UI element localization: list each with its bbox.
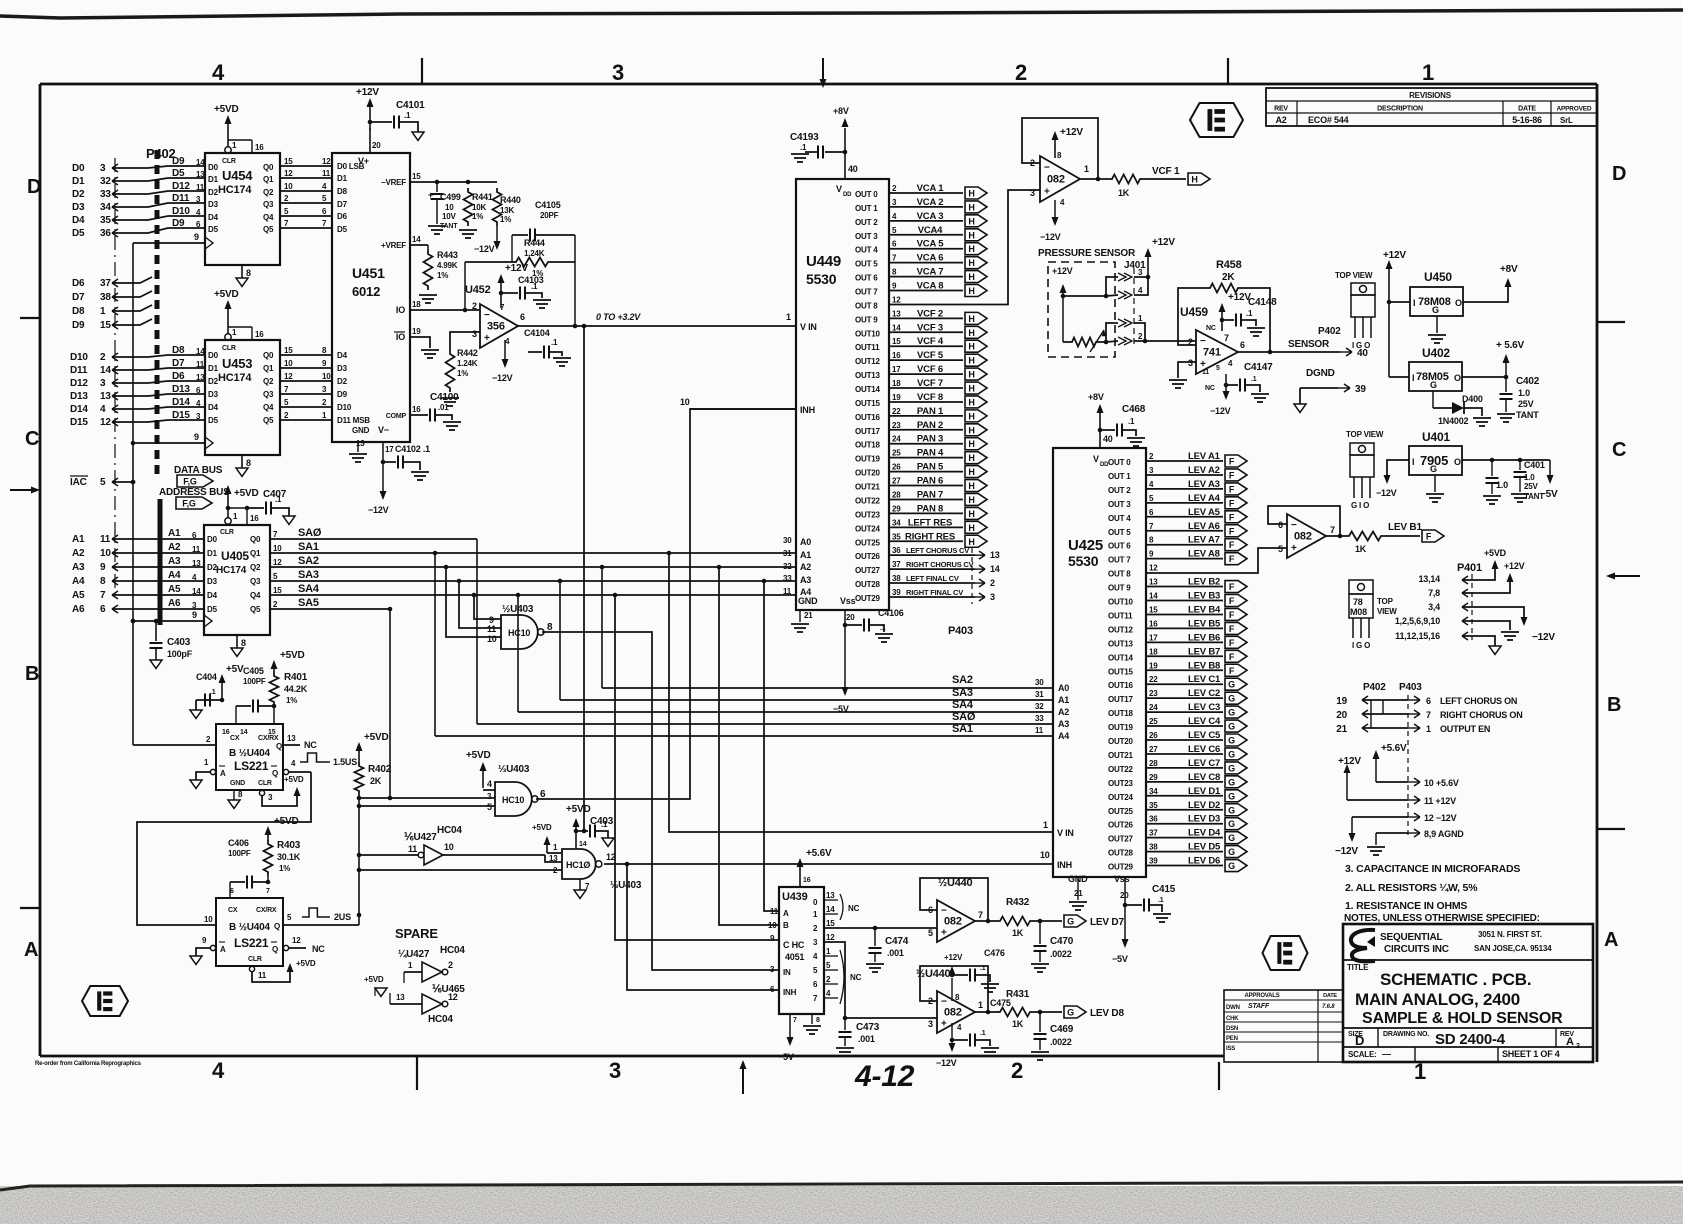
- svg-text:LEV D2: LEV D2: [1188, 800, 1220, 811]
- svg-text:13: 13: [196, 373, 205, 382]
- svg-text:PRESSURE SENSOR: PRESSURE SENSOR: [1038, 248, 1136, 259]
- svg-text:Q2: Q2: [263, 377, 274, 386]
- svg-text:F: F: [1229, 652, 1235, 662]
- svg-text:+: +: [1044, 187, 1050, 198]
- svg-text:78: 78: [1353, 597, 1363, 607]
- svg-text:11: 11: [322, 169, 331, 178]
- svg-text:P402: P402: [1363, 682, 1386, 693]
- svg-text:−12V: −12V: [474, 244, 495, 254]
- svg-text:44.2K: 44.2K: [284, 684, 308, 694]
- wire SA5 tap to gate2: [389, 609, 391, 798]
- svg-text:C4102 .1: C4102 .1: [395, 444, 430, 454]
- U453 ground pin 8: [241, 455, 243, 468]
- svg-text:OUT 6: OUT 6: [1108, 542, 1131, 551]
- svg-text:SAMPLE & HOLD SENSOR: SAMPLE & HOLD SENSOR: [1362, 1010, 1563, 1027]
- svg-text:SA2: SA2: [298, 555, 319, 567]
- svg-text:+5V: +5V: [226, 664, 244, 675]
- svg-text:+12V: +12V: [1060, 127, 1083, 138]
- svg-text:741: 741: [1203, 347, 1221, 359]
- svg-text:H: H: [968, 453, 974, 463]
- svg-text:G: G: [1228, 791, 1235, 801]
- svg-text:OUT20: OUT20: [1108, 737, 1134, 746]
- svg-text:D0: D0: [207, 535, 218, 544]
- svg-text:OUT19: OUT19: [855, 455, 881, 464]
- bottom center alignment arrow: [742, 1066, 744, 1094]
- svg-text:G: G: [1228, 722, 1235, 732]
- svg-text:Q3: Q3: [250, 577, 261, 586]
- svg-text:D9: D9: [337, 390, 348, 399]
- svg-text:C469: C469: [1050, 1024, 1074, 1035]
- wire inverter output: [443, 854, 545, 856]
- svg-text:Q4: Q4: [263, 403, 274, 412]
- wire SA2 tap down: [600, 565, 605, 570]
- zone tick bottom 2/1: [1218, 1062, 1220, 1090]
- capacitor C474: [874, 928, 876, 946]
- svg-text:2. ALL RESISTORS ¼W, 5%: 2. ALL RESISTORS ¼W, 5%: [1345, 882, 1478, 894]
- svg-text:−12V: −12V: [936, 1058, 957, 1068]
- svg-text:11: 11: [100, 534, 111, 545]
- svg-text:OUT 4: OUT 4: [1108, 514, 1131, 523]
- svg-text:OUT10: OUT10: [1108, 598, 1134, 607]
- data bus flag F,G: [177, 475, 213, 487]
- svg-text:−VREF: −VREF: [381, 178, 406, 187]
- svg-text:P403: P403: [948, 625, 973, 637]
- svg-text:35: 35: [1149, 801, 1158, 810]
- wire J401 to U459: [1134, 340, 1196, 342]
- wire U401 input -12V: [1387, 460, 1409, 478]
- title block outer: [1343, 924, 1593, 1062]
- svg-text:B: B: [25, 663, 39, 685]
- svg-text:OUTPUT EN: OUTPUT EN: [1440, 724, 1490, 734]
- svg-text:38: 38: [892, 574, 901, 583]
- zone tick top 4/3: [421, 58, 423, 84]
- svg-text:HC10: HC10: [508, 628, 530, 638]
- svg-text:A4: A4: [168, 570, 181, 581]
- wire U453 Q to U451: [280, 367, 332, 369]
- svg-text:C4106: C4106: [878, 608, 904, 618]
- svg-text:A5: A5: [168, 584, 181, 595]
- svg-text:P402: P402: [1318, 326, 1341, 337]
- svg-text:27: 27: [892, 477, 901, 486]
- svg-text:C: C: [1612, 439, 1626, 461]
- svg-text:.1: .1: [275, 495, 282, 504]
- power -5V label: [1549, 460, 1551, 478]
- svg-text:16: 16: [803, 877, 811, 884]
- wire gate3 output / U425 INH net: [604, 863, 1053, 865]
- svg-text:V−: V−: [378, 425, 389, 435]
- svg-text:1,2,5,6,9,10: 1,2,5,6,9,10: [1395, 616, 1440, 626]
- wire SA0 tap down: [476, 539, 478, 724]
- svg-text:12: 12: [322, 157, 331, 166]
- svg-text:R458: R458: [1216, 259, 1242, 271]
- address bus thick line: [158, 499, 163, 625]
- svg-text:OUT 4: OUT 4: [855, 246, 878, 255]
- svg-text:D10: D10: [172, 206, 190, 217]
- svg-text:A1: A1: [72, 534, 85, 545]
- wire SA2 to U439 B: [717, 565, 722, 570]
- svg-text:Q5: Q5: [263, 416, 274, 425]
- svg-text:G: G: [1228, 861, 1235, 871]
- svg-text:F: F: [1229, 498, 1235, 508]
- svg-text:H: H: [968, 509, 974, 519]
- svg-text:1%: 1%: [500, 215, 511, 224]
- svg-text:VCA 2: VCA 2: [917, 197, 944, 208]
- svg-text:⅓U403: ⅓U403: [498, 764, 530, 775]
- svg-text:LEFT RES: LEFT RES: [908, 517, 952, 528]
- svg-text:D1: D1: [72, 176, 85, 187]
- svg-text:16: 16: [412, 405, 421, 414]
- svg-text:TANT: TANT: [1516, 410, 1539, 420]
- svg-text:16: 16: [222, 729, 230, 736]
- svg-text:G: G: [1430, 380, 1437, 390]
- svg-text:OUT29: OUT29: [1108, 863, 1134, 872]
- svg-text:OUT20: OUT20: [855, 469, 881, 478]
- svg-text:HC174: HC174: [218, 184, 252, 196]
- svg-text:−12V: −12V: [1532, 632, 1555, 643]
- svg-text:11: 11: [487, 624, 496, 634]
- P403 row 11 +12V: [1347, 799, 1408, 801]
- svg-text:SEQUENTIAL: SEQUENTIAL: [1380, 932, 1443, 943]
- svg-text:+8V: +8V: [1088, 392, 1104, 402]
- svg-text:OUT26: OUT26: [855, 552, 881, 561]
- svg-text:PAN 8: PAN 8: [917, 503, 943, 514]
- op-amp U440b 082: [937, 991, 975, 1033]
- svg-text:1.0: 1.0: [1496, 480, 1508, 490]
- svg-text:OUT 1: OUT 1: [1108, 472, 1131, 481]
- wire SA4 to U439 C: [613, 593, 618, 598]
- svg-text:29: 29: [892, 504, 901, 513]
- svg-text:8: 8: [246, 458, 251, 468]
- svg-text:+8V: +8V: [1500, 264, 1518, 275]
- svg-text:D7: D7: [172, 358, 185, 369]
- svg-text:LEV A6: LEV A6: [1188, 521, 1220, 532]
- svg-text:Q2: Q2: [250, 563, 261, 572]
- svg-text:D3: D3: [337, 364, 348, 373]
- svg-text:Q5: Q5: [263, 225, 274, 234]
- svg-text:F: F: [1426, 532, 1432, 542]
- svg-text:C4104: C4104: [524, 328, 550, 338]
- svg-text:11,12,15,16: 11,12,15,16: [1395, 631, 1440, 641]
- svg-text:3: 3: [609, 1058, 621, 1083]
- svg-text:20: 20: [372, 141, 381, 150]
- svg-text:.1: .1: [1128, 417, 1135, 426]
- U403c power pin 14 +5VD: [575, 824, 577, 849]
- svg-text:D: D: [27, 176, 41, 198]
- svg-text:IO: IO: [396, 305, 405, 315]
- svg-text:OUT 0: OUT 0: [1108, 458, 1131, 467]
- ground AGND: [1375, 833, 1377, 845]
- svg-text:16: 16: [255, 143, 264, 152]
- svg-text:CIRCUITS INC: CIRCUITS INC: [1384, 944, 1449, 955]
- resistor R401 44.2K: [270, 672, 279, 706]
- svg-text:Q2: Q2: [263, 188, 274, 197]
- svg-text:REV: REV: [1274, 106, 1288, 113]
- svg-text:HC04: HC04: [428, 1014, 453, 1025]
- svg-text:13: 13: [192, 559, 201, 568]
- svg-text:Vss: Vss: [840, 596, 856, 606]
- svg-text:R443: R443: [437, 250, 458, 260]
- svg-text:10: 10: [284, 182, 293, 191]
- svg-text:D4: D4: [72, 215, 85, 226]
- svg-text:OUT24: OUT24: [1108, 793, 1134, 802]
- wire U439 out2 to op-amp: [824, 927, 937, 929]
- svg-text:D4: D4: [208, 403, 219, 412]
- svg-text:G: G: [1432, 305, 1439, 315]
- svg-text:D3: D3: [207, 577, 218, 586]
- svg-text:18: 18: [412, 300, 421, 309]
- svg-text:26: 26: [1149, 731, 1158, 740]
- svg-text:Q4: Q4: [250, 591, 261, 600]
- svg-text:C4100: C4100: [430, 392, 459, 403]
- svg-text:LEV A8: LEV A8: [1188, 549, 1220, 560]
- svg-text:15: 15: [284, 157, 293, 166]
- svg-text:OUT22: OUT22: [1108, 765, 1134, 774]
- svg-text:C468: C468: [1122, 404, 1146, 415]
- svg-text:.0022: .0022: [1050, 1037, 1072, 1047]
- pressure sensor variable resistor: [1068, 338, 1100, 347]
- svg-text:12: 12: [892, 295, 901, 304]
- svg-text:LEV C4: LEV C4: [1188, 716, 1221, 727]
- svg-text:CX/RX: CX/RX: [258, 735, 279, 742]
- svg-text:A4: A4: [72, 576, 85, 587]
- capacitor C4101: [368, 120, 373, 125]
- svg-text:17: 17: [892, 365, 901, 374]
- zone tick bottom 4/3: [416, 1056, 418, 1090]
- svg-text:D5: D5: [208, 225, 219, 234]
- svg-text:G: G: [1228, 708, 1235, 718]
- svg-text:LEV A4: LEV A4: [1188, 493, 1221, 504]
- svg-text:1%: 1%: [457, 369, 468, 378]
- svg-text:D2: D2: [72, 189, 85, 200]
- svg-text:H: H: [968, 244, 974, 254]
- svg-text:NC: NC: [848, 904, 860, 913]
- svg-text:13: 13: [196, 170, 205, 179]
- svg-text:−: −: [1200, 336, 1206, 347]
- svg-text:LEV C8: LEV C8: [1188, 772, 1220, 783]
- power +12V P401: [1507, 573, 1514, 582]
- resistor R443 4.99K: [427, 245, 429, 250]
- svg-text:OUT18: OUT18: [1108, 709, 1134, 718]
- border frame: [40, 83, 1597, 86]
- svg-text:I G O: I G O: [1352, 641, 1370, 650]
- svg-text:1: 1: [978, 1000, 983, 1010]
- svg-text:DRAWING NO.: DRAWING NO.: [1383, 1031, 1429, 1038]
- svg-text:7: 7: [266, 888, 270, 895]
- svg-text:F: F: [1229, 512, 1235, 522]
- svg-text:HC174: HC174: [216, 565, 247, 576]
- svg-text:Q: Q: [272, 769, 278, 778]
- svg-text:10: 10: [273, 544, 282, 553]
- svg-text:11: 11: [783, 587, 792, 596]
- svg-text:4: 4: [487, 779, 492, 789]
- svg-text:PAN 1: PAN 1: [917, 406, 944, 417]
- zone tick left D/C: [20, 317, 40, 319]
- U401 ground: [1434, 475, 1436, 492]
- svg-text:100PF: 100PF: [228, 849, 251, 858]
- svg-text:9: 9: [194, 432, 199, 442]
- svg-text:F: F: [1229, 554, 1235, 564]
- svg-text:OUT14: OUT14: [1108, 653, 1134, 662]
- svg-text:7: 7: [1426, 710, 1431, 720]
- svg-text:R440: R440: [500, 195, 521, 205]
- sequential circuits logo: [1351, 930, 1375, 961]
- svg-text:1.0: 1.0: [1524, 473, 1535, 482]
- svg-text:.1: .1: [1251, 376, 1257, 383]
- svg-text:CLR: CLR: [258, 780, 272, 787]
- svg-text:D14: D14: [70, 404, 88, 415]
- right alignment arrow: [1612, 575, 1640, 577]
- resistor R441 10K: [466, 180, 471, 185]
- svg-text:TITLE: TITLE: [1347, 963, 1369, 972]
- svg-text:5: 5: [100, 477, 106, 488]
- svg-text:VCA 7: VCA 7: [917, 267, 944, 278]
- data bus thick dashed: [155, 150, 160, 478]
- svg-text:4051: 4051: [785, 952, 804, 962]
- svg-text:25V: 25V: [1518, 399, 1534, 409]
- svg-text:SD 2400-4: SD 2400-4: [1435, 1031, 1506, 1048]
- svg-text:38: 38: [1149, 843, 1158, 852]
- svg-text:+5VD: +5VD: [296, 959, 316, 968]
- svg-text:.1: .1: [404, 111, 411, 120]
- svg-text:CHK: CHK: [1226, 1016, 1239, 1022]
- svg-text:OUT16: OUT16: [1108, 681, 1134, 690]
- svg-text:+12V: +12V: [505, 263, 528, 274]
- svg-text:A2: A2: [72, 548, 85, 559]
- svg-text:C4101: C4101: [396, 100, 425, 111]
- svg-text:−5V: −5V: [778, 1052, 794, 1062]
- svg-text:C406: C406: [228, 838, 249, 848]
- svg-text:D11: D11: [70, 365, 88, 376]
- svg-text:D0: D0: [208, 163, 219, 172]
- svg-text:D5: D5: [72, 228, 85, 239]
- svg-text:−12V: −12V: [1210, 406, 1231, 416]
- svg-text:D4: D4: [208, 213, 219, 222]
- svg-text:7,8: 7,8: [1428, 588, 1440, 598]
- svg-text:H: H: [968, 495, 974, 505]
- svg-text:C499: C499: [440, 192, 461, 202]
- pulse symbol 1.5US: [300, 753, 330, 762]
- op-amp U440a 082: [937, 900, 975, 942]
- svg-text:3: 3: [1030, 188, 1035, 198]
- svg-text:PAN 7: PAN 7: [917, 489, 943, 500]
- svg-text:21: 21: [804, 611, 813, 620]
- wire SA1 tap down: [433, 551, 438, 556]
- svg-text:MAIN ANALOG, 2400: MAIN ANALOG, 2400: [1355, 990, 1520, 1009]
- svg-text:19: 19: [892, 393, 901, 402]
- svg-text:D10: D10: [337, 403, 352, 412]
- U439 pin8 ground: [811, 1014, 813, 1024]
- svg-text:F: F: [1229, 638, 1235, 648]
- svg-text:D5: D5: [207, 605, 218, 614]
- svg-text:SA2: SA2: [952, 674, 973, 686]
- svg-text:INH: INH: [800, 405, 815, 415]
- wire gate1 output: [542, 632, 779, 970]
- svg-text:LEV B7: LEV B7: [1188, 646, 1220, 657]
- power +5VD U404b CLR: [287, 963, 294, 972]
- svg-text:OUT15: OUT15: [1108, 667, 1134, 676]
- U404a Qbar pin: [283, 769, 288, 774]
- svg-text:D1: D1: [207, 549, 218, 558]
- svg-text:D2: D2: [208, 188, 219, 197]
- svg-text:Q3: Q3: [263, 390, 274, 399]
- wire gate1 input 10: [446, 567, 501, 637]
- svg-text:10: 10: [100, 548, 111, 559]
- svg-text:RIGHT CHORUS CV: RIGHT CHORUS CV: [906, 560, 974, 569]
- svg-text:31: 31: [783, 549, 792, 558]
- wire DAC junction): [131, 480, 136, 485]
- pulse symbol 2US: [302, 908, 330, 917]
- svg-text:C404: C404: [196, 672, 217, 682]
- svg-text:12: 12: [273, 558, 282, 567]
- svg-text:LEV A2: LEV A2: [1188, 465, 1220, 476]
- svg-text:H: H: [968, 356, 974, 366]
- svg-text:A1: A1: [800, 550, 811, 560]
- svg-text:I: I: [1412, 457, 1414, 467]
- svg-text:19: 19: [1336, 696, 1347, 707]
- svg-text:39: 39: [892, 588, 901, 597]
- wire SA3 tap down: [558, 579, 563, 584]
- wire 082 output VCF1: [1096, 177, 1101, 182]
- vertical wire clock chain: [132, 243, 134, 745]
- svg-text:A: A: [1566, 1036, 1574, 1048]
- wire R402 node: [358, 795, 360, 925]
- svg-text:12 −12V: 12 −12V: [1424, 813, 1457, 823]
- svg-text:11: 11: [770, 907, 779, 916]
- svg-text:PAN 5: PAN 5: [917, 462, 944, 473]
- svg-text:C475: C475: [990, 998, 1011, 1008]
- svg-text:.1: .1: [601, 820, 608, 829]
- svg-text:OUT 7: OUT 7: [855, 288, 878, 297]
- nand gate U403c HC10: [562, 849, 596, 879]
- svg-text:D7: D7: [337, 200, 348, 209]
- svg-text:D: D: [1612, 163, 1626, 185]
- svg-text:D10: D10: [70, 352, 88, 363]
- svg-text:6: 6: [1426, 696, 1431, 706]
- svg-text:D2: D2: [207, 563, 218, 572]
- svg-text:U451: U451: [352, 265, 385, 281]
- svg-text:DWN: DWN: [1226, 1005, 1240, 1011]
- svg-text:LEV D3: LEV D3: [1188, 814, 1220, 825]
- ic U449 5530: [796, 179, 889, 610]
- svg-text:26: 26: [892, 463, 901, 472]
- zone tick top 2/1: [1227, 58, 1229, 84]
- svg-text:OUT23: OUT23: [1108, 779, 1134, 788]
- svg-text:14: 14: [100, 365, 111, 376]
- svg-text:5-16-86: 5-16-86: [1512, 115, 1542, 125]
- svg-text:5: 5: [928, 928, 933, 938]
- svg-text:.1: .1: [531, 282, 538, 291]
- svg-text:1%: 1%: [286, 696, 297, 705]
- svg-text:A6: A6: [168, 598, 181, 609]
- svg-text:13: 13: [1149, 578, 1158, 587]
- svg-text:2: 2: [100, 352, 106, 363]
- svg-text:+12V: +12V: [1504, 561, 1525, 571]
- svg-text:H: H: [968, 342, 974, 352]
- svg-text:2: 2: [990, 578, 995, 588]
- svg-text:G: G: [1067, 1008, 1074, 1018]
- svg-text:A2: A2: [1058, 707, 1069, 717]
- svg-text:F: F: [1229, 596, 1235, 606]
- svg-text:VCF 2: VCF 2: [917, 308, 943, 319]
- svg-text:HC1Ø: HC1Ø: [566, 860, 590, 870]
- svg-text:C4148: C4148: [1248, 297, 1277, 308]
- nand gate U403b HC10: [495, 782, 532, 816]
- svg-text:1K: 1K: [1012, 928, 1024, 938]
- svg-text:Q1: Q1: [263, 364, 274, 373]
- svg-text:OUT11: OUT11: [855, 343, 880, 352]
- svg-text:+5VD: +5VD: [234, 488, 259, 499]
- svg-text:7: 7: [793, 1017, 797, 1024]
